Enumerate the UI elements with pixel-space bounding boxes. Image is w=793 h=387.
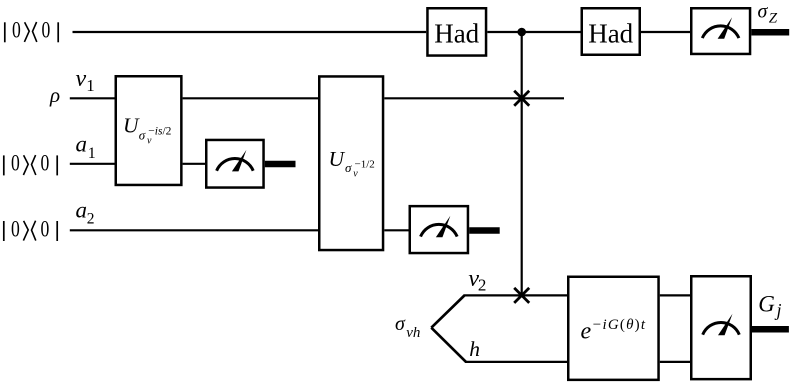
wire v1 into U1 bbox=[70, 97, 115, 99]
svg-text:1: 1 bbox=[88, 145, 96, 162]
gate Had (second) bbox=[582, 8, 640, 55]
svg-text:Z: Z bbox=[769, 11, 778, 27]
measurement box M3 (a2) bbox=[410, 206, 468, 253]
svg-text:G: G bbox=[758, 292, 775, 317]
label v2 bbox=[468, 266, 486, 295]
vertical control wire bbox=[521, 32, 523, 295]
node |0><0| a2 ket label bbox=[4, 216, 57, 242]
svg-text:U: U bbox=[329, 147, 346, 171]
svg-text:1: 1 bbox=[86, 76, 95, 95]
svg-text:2: 2 bbox=[478, 276, 487, 295]
svg-text:−is/2: −is/2 bbox=[148, 126, 171, 138]
svg-text:0: 0 bbox=[41, 216, 50, 242]
svg-text:e: e bbox=[581, 319, 592, 345]
wire v1 between U1 and U2 bbox=[183, 97, 318, 99]
pentagon input upper diagonal bbox=[431, 295, 464, 327]
svg-text:0: 0 bbox=[11, 151, 20, 177]
wire h from pentagon to E box bbox=[465, 361, 567, 363]
svg-text:ρ: ρ bbox=[49, 83, 60, 107]
cross X1 on v1 wire bbox=[514, 91, 529, 106]
svg-text:0: 0 bbox=[41, 151, 50, 177]
label G_j bbox=[758, 292, 781, 320]
svg-text:σ: σ bbox=[345, 160, 352, 175]
svg-text:v: v bbox=[76, 66, 87, 92]
pentagon input lower diagonal bbox=[431, 328, 466, 362]
wire a1 into U1 bbox=[70, 163, 115, 165]
svg-text:2: 2 bbox=[87, 211, 95, 228]
svg-text:h: h bbox=[469, 337, 480, 361]
svg-text:Had: Had bbox=[434, 19, 479, 49]
label a1 bbox=[76, 132, 96, 162]
svg-text:−1/2: −1/2 bbox=[355, 158, 375, 170]
wire v2 from pentagon to E box bbox=[464, 294, 568, 296]
cross X2 on v2 wire bbox=[514, 288, 529, 303]
svg-text:−iG(θ)t: −iG(θ)t bbox=[593, 317, 646, 333]
wire q0 between Had1 and Had2 bbox=[487, 31, 580, 33]
svg-text:vh: vh bbox=[406, 325, 420, 341]
svg-text:Had: Had bbox=[588, 19, 633, 49]
label a2 bbox=[76, 197, 95, 227]
svg-text:0: 0 bbox=[42, 18, 51, 44]
svg-text:j: j bbox=[775, 300, 782, 320]
svg-text:0: 0 bbox=[11, 216, 20, 242]
classical output wire (thick) after M1 bbox=[751, 29, 789, 36]
label v1 bbox=[76, 66, 95, 95]
label sigma_Z bbox=[758, 1, 778, 27]
classical output wire (thick) after M4 bbox=[752, 326, 789, 333]
svg-text:σ: σ bbox=[395, 313, 406, 335]
wire a2 into U2 bbox=[70, 229, 318, 231]
measurement box M2 (a1) bbox=[206, 140, 263, 188]
measurement box M1 (top) bbox=[691, 8, 750, 54]
svg-text:σ: σ bbox=[758, 1, 769, 23]
node q0 ket label |0><0| bbox=[5, 18, 58, 44]
gate U2 (U sigma_v^-1/2) bbox=[319, 76, 383, 250]
svg-text:σ: σ bbox=[139, 127, 146, 142]
measurement box M4 (bottom) bbox=[691, 276, 751, 379]
classical output wire (thick) after M3 bbox=[469, 227, 500, 234]
wire a1 between U1 and meter M2 bbox=[183, 163, 205, 165]
wire h between E box and meter M4 bbox=[660, 361, 690, 363]
node |0><0| a1 ket label bbox=[4, 151, 57, 177]
wire q0 left segment bbox=[73, 31, 427, 33]
gate U1 (U sigma_v^-is/2) bbox=[116, 76, 182, 185]
svg-text:a: a bbox=[76, 132, 88, 157]
svg-text:a: a bbox=[76, 197, 88, 222]
label sigma_vh bbox=[395, 313, 420, 341]
wire v2 between E box and meter M4 bbox=[660, 294, 690, 296]
svg-text:0: 0 bbox=[12, 18, 21, 44]
classical output wire (thick) after M2 bbox=[265, 161, 296, 168]
gate Had (first) bbox=[427, 8, 486, 55]
svg-text:U: U bbox=[123, 113, 140, 137]
wire q0 between Had2 and meter bbox=[641, 31, 690, 33]
wire a2 between U2 and meter M3 bbox=[384, 229, 408, 231]
gate E (e^-iG(theta)t) bbox=[568, 277, 658, 380]
control dot on q0 bbox=[517, 28, 526, 37]
wire v1 after U2 bbox=[384, 97, 564, 99]
